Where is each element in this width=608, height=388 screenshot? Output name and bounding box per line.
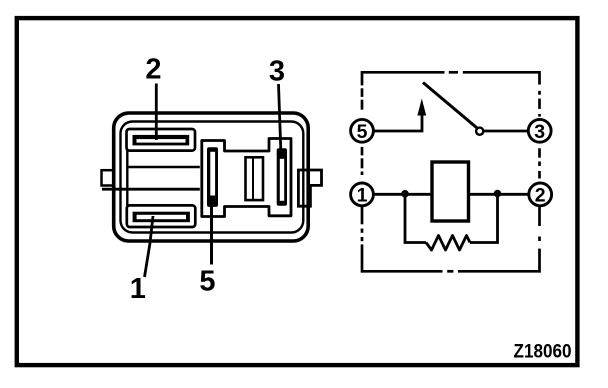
resistor — [426, 236, 470, 251]
keyway channel lower edge — [102, 188, 200, 191]
relay boundary dash-dot bottom — [361, 270, 541, 273]
leader line 5 — [210, 197, 213, 265]
pin 5 leader blob — [208, 196, 215, 207]
wire: terminal 1 to coil — [373, 193, 432, 196]
junction dot right — [494, 190, 502, 198]
switch actuation arrow — [417, 99, 426, 116]
terminal 3 — [528, 119, 551, 142]
leader line 1 — [145, 216, 154, 277]
relay boundary dash-dot left — [361, 71, 364, 273]
svg-text:1: 1 — [357, 185, 368, 207]
junction dot left — [401, 190, 409, 198]
pin 2 terminal blade — [133, 135, 190, 146]
switch contact — [476, 128, 483, 135]
center key slot divider — [252, 157, 254, 200]
svg-text:3: 3 — [269, 56, 285, 88]
relay connector body outer outline — [114, 113, 309, 241]
svg-text:3: 3 — [534, 121, 545, 143]
svg-text:5: 5 — [357, 121, 368, 143]
wire: left branch down — [405, 194, 426, 242]
terminal 5 — [351, 119, 374, 142]
terminal 1 — [351, 183, 374, 206]
terminal 2 — [529, 183, 552, 206]
leader line 3 — [279, 84, 282, 156]
svg-text:2: 2 — [145, 54, 161, 86]
wire: coil to terminal 2 — [469, 193, 529, 196]
keyway channel upper edge — [127, 166, 200, 168]
center key slot — [246, 157, 264, 200]
pin 1 terminal blade — [133, 212, 190, 223]
relay coil — [432, 162, 469, 221]
wire: contact to terminal 3 — [484, 130, 529, 133]
wire: terminal 5 to switch pivot — [373, 113, 422, 131]
slot column left edge — [126, 150, 128, 206]
pin 3 slot — [277, 148, 287, 206]
pin 1 slot housing — [127, 205, 196, 227]
svg-text:2: 2 — [535, 185, 546, 207]
relay connector body inner outline — [121, 122, 304, 233]
switch blade — [423, 83, 477, 129]
pin 3 leader blob — [278, 149, 285, 159]
pin 2 slot housing — [127, 129, 196, 151]
center contact carrier outline — [202, 139, 291, 217]
leader line 2 — [155, 84, 158, 141]
relay boundary dash-dot top — [361, 71, 541, 74]
svg-text:Z18060: Z18060 — [514, 341, 572, 363]
wire: resistor to right branch — [470, 194, 498, 242]
svg-text:1: 1 — [130, 273, 146, 305]
svg-text:5: 5 — [199, 266, 215, 298]
pin 5 slot — [207, 147, 218, 207]
right mounting key tab — [298, 170, 321, 206]
relay boundary dash-dot right — [538, 71, 541, 273]
left mounting tab — [102, 170, 115, 185]
